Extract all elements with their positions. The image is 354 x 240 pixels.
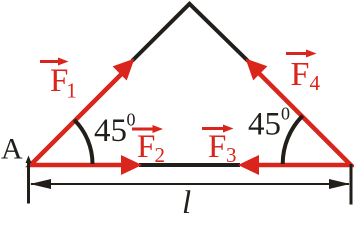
vector bar arrow over F1 xyxy=(40,60,60,63)
left angle arc 45deg xyxy=(74,120,92,164)
force F4 and F3 shafts (red polyline through right vertex) xyxy=(256,72,351,165)
vertex marker at A (small triangle) xyxy=(26,156,32,164)
vertex tick right xyxy=(350,164,353,205)
svg-text:45: 45 xyxy=(248,107,281,143)
force F1 and F2 shafts (red polyline through vertex A) xyxy=(31,74,124,166)
triangle upper sides left and right (black polyline) xyxy=(132,4,248,61)
vector bar arrow over F2 xyxy=(132,128,153,131)
dimension arrowhead left xyxy=(30,179,51,189)
force F4 arrowhead xyxy=(246,59,268,81)
dimension line for l xyxy=(31,183,349,185)
force F1 arrowhead xyxy=(113,59,135,81)
force F3 arrowhead xyxy=(238,155,259,175)
svg-text:A: A xyxy=(1,133,23,166)
svg-text:F: F xyxy=(291,56,310,93)
vertex tick left (below A) xyxy=(27,163,30,204)
svg-text:1: 1 xyxy=(66,79,77,103)
svg-text:3: 3 xyxy=(226,143,237,167)
svg-text:2: 2 xyxy=(155,143,166,167)
svg-text:4: 4 xyxy=(310,71,321,95)
svg-text:0: 0 xyxy=(281,104,290,124)
triangle base (black) xyxy=(139,163,240,167)
vector bar arrow over F3 xyxy=(202,127,224,130)
svg-text:45: 45 xyxy=(94,113,127,149)
svg-text:F: F xyxy=(208,129,226,165)
force F2 arrowhead xyxy=(121,155,142,175)
vector bar arrow over F4 xyxy=(286,52,307,55)
svg-text:F: F xyxy=(137,129,155,165)
svg-text:0: 0 xyxy=(127,110,136,130)
dimension arrowhead right xyxy=(329,179,350,189)
right angle arc 45deg xyxy=(283,116,303,164)
svg-text:l: l xyxy=(182,185,191,213)
